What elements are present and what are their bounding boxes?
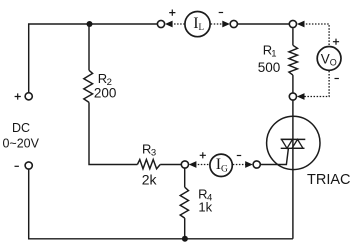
label: DC + sign (15, 93, 21, 99)
wire: top rail from DC+ up and right to IL left terminal (29, 24, 157, 92)
svg-text:2k: 2k (142, 172, 158, 188)
svg-text:TRIAC: TRIAC (307, 172, 351, 188)
resistor R3 zigzag (2k) (137, 160, 160, 169)
dotted lead: IG left terminal to meter (195, 164, 210, 166)
svg-text:500: 500 (258, 60, 281, 75)
arrow: into IL right terminal (222, 21, 230, 28)
label: VO + sign (333, 39, 339, 45)
terminal: IG left (181, 161, 188, 168)
ammeter IG circle (210, 154, 232, 176)
label: VO - sign (335, 78, 339, 80)
terminal: IG right / gate node (253, 161, 260, 168)
svg-text:R3: R3 (142, 141, 156, 158)
dotted lead: IL meter to right terminal (211, 23, 224, 25)
terminal: DC - (25, 162, 32, 169)
dotted lead: VO top to R1 top terminal (303, 24, 329, 46)
TRIAC right triangle (pointing up) (292, 139, 303, 148)
terminal: IL right (230, 20, 237, 27)
svg-text:R1: R1 (263, 42, 277, 59)
arrow: into IG right terminal (245, 161, 253, 168)
resistor R2 zigzag (200 ohm) (84, 70, 93, 102)
TRIAC left triangle (pointing down) (282, 139, 293, 148)
junction: R4 node on bottom rail (182, 236, 188, 242)
ammeter IL circle (185, 12, 210, 37)
resistor R4 zigzag (1k) (180, 187, 188, 218)
wire: R2 branch from top junction down to zigzag (88, 24, 90, 70)
wire: R1 bottom lead (292, 75, 294, 93)
terminal: IL left (157, 20, 164, 27)
wire: from IG left terminal node down to R4 (184, 168, 186, 187)
wire: R4 bottom to bottom rail (184, 218, 186, 239)
wire: bottom rail from DC- down, right to TRIAC column (29, 169, 293, 238)
label: IL - sign (219, 12, 223, 14)
TRIAC circle U1 (267, 116, 320, 169)
junction: R2 top node on top rail (87, 21, 93, 27)
label: DC - sign (15, 165, 19, 167)
arrow: into IL left terminal (165, 21, 173, 28)
dotted lead: VO bottom to R1 bottom terminal (303, 71, 329, 97)
voltmeter VO circle (317, 47, 341, 71)
label: IG - sign (237, 155, 241, 157)
arrow: into R1 top terminal (297, 21, 305, 28)
arrow: into R1 bottom terminal (297, 93, 305, 100)
wire: gate lead from IG right terminal to TRIAC gate (261, 148, 289, 164)
svg-text:200: 200 (94, 86, 117, 101)
TRIAC bottom bar (MT1 side) (281, 147, 305, 149)
wire: R3 right side to IG left terminal (160, 164, 181, 166)
svg-text:DC: DC (12, 121, 30, 135)
wire: main TRIAC column vertical from R1 bottom terminal through TRIAC to bottom rail (292, 100, 294, 238)
wire: R1 top lead (292, 28, 294, 45)
terminal: R1 top node (289, 20, 296, 27)
label: IG + sign (200, 152, 206, 158)
dotted lead: IG meter to right terminal (233, 164, 247, 166)
wire: from R2 bottom down then right to R3 (89, 102, 137, 164)
label: IL + sign (169, 10, 175, 16)
svg-text:1k: 1k (198, 200, 212, 215)
dotted lead: IL left terminal to meter (171, 23, 184, 25)
terminal: R1 bottom / TRIAC MT2 node (289, 93, 296, 100)
arrow: into IG left terminal (189, 161, 197, 168)
svg-text:0~20V: 0~20V (2, 136, 39, 150)
terminal: DC + (25, 93, 32, 100)
TRIAC top bar (MT2 side) (281, 138, 306, 140)
wire: top rail between IL right terminal and R1 top terminal (238, 23, 289, 25)
resistor R1 zigzag (500 ohm) (289, 45, 298, 75)
